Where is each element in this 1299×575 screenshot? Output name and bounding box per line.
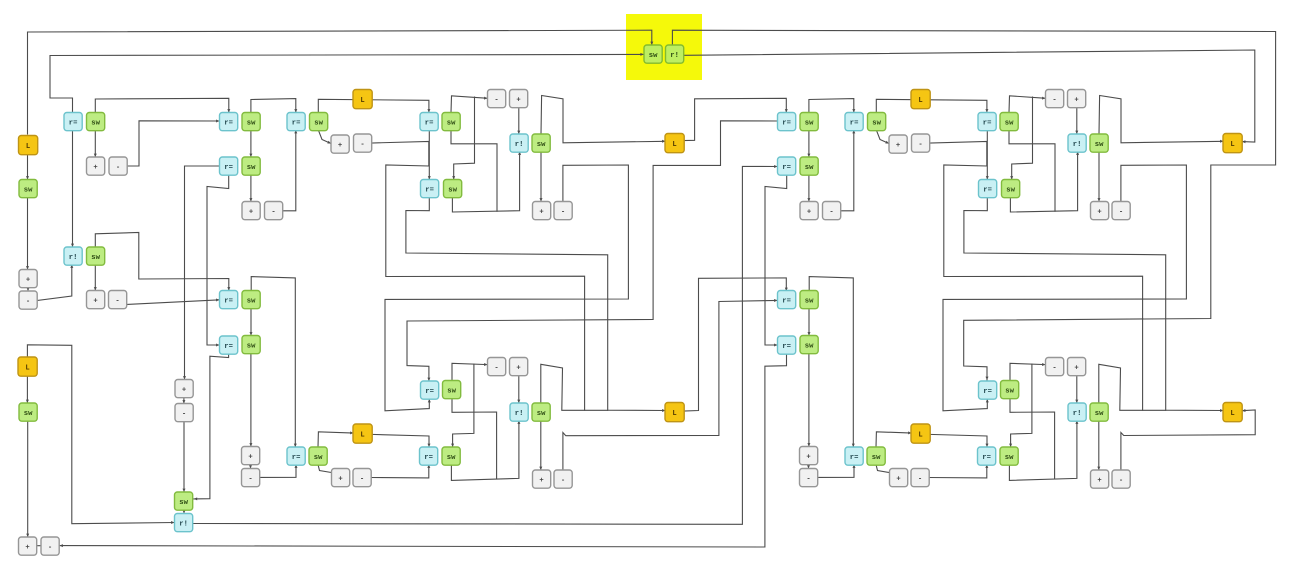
svg-text:L: L [25,364,29,372]
decrement m87 [41,537,59,555]
svg-text:L: L [1230,410,1234,418]
svg-text:r=: r= [292,454,301,462]
svg-text:r!: r! [179,520,188,528]
decrement m98 [554,470,572,488]
switch s39R [1002,180,1020,198]
wire w51 [260,465,297,478]
svg-text:+: + [338,142,342,150]
wire w12R [809,99,854,113]
register-test r58 [220,291,238,309]
svg-text:-: - [248,475,252,483]
wire w41 [540,421,542,471]
svg-text:-: - [360,141,364,149]
svg-text:sw: sw [537,141,546,149]
register-set r18 [666,45,684,63]
decrement m57 [109,291,127,309]
svg-text:r=: r= [782,297,791,305]
svg-text:sw: sw [179,499,188,507]
wire w52R [809,277,853,447]
switch s67R [1001,381,1019,399]
switch s10 [242,157,260,175]
register-set r70R [1068,403,1086,421]
switch s15R [1000,113,1018,131]
svg-text:+: + [806,453,810,461]
svg-text:+: + [539,477,543,485]
register-test r58R [778,291,796,309]
wire w8 [94,265,96,291]
wire w40 [563,300,778,470]
wire w64 [194,166,778,524]
decrement m41R [1112,202,1130,220]
wire w22R [929,142,987,167]
svg-text:r=: r= [782,164,791,172]
switch s33 [87,247,105,265]
switch s22R [1090,134,1108,152]
wire w53 [250,354,252,447]
increment p34R [800,202,818,220]
wire w17 [185,166,220,380]
increment p34 [242,202,260,220]
svg-text:r=: r= [292,119,301,127]
wire w5 [37,265,72,301]
decrement m19R [1046,90,1064,108]
wire w29 [540,152,542,202]
svg-text:sw: sw [447,387,456,395]
svg-text:r=: r= [850,454,859,462]
wire w37 [541,364,608,410]
switch s5 [242,113,260,131]
register-test r9R [778,157,796,175]
switch s13R [868,113,886,131]
lamp L31 [1223,134,1242,153]
svg-text:+: + [248,453,252,461]
wire w63 [183,510,185,514]
switch s5R [800,113,818,131]
svg-text:+: + [896,475,900,483]
switch s84 [175,492,193,510]
wire w55R [808,309,810,336]
wire w32 [407,121,778,381]
svg-text:+: + [516,96,520,104]
svg-text:+: + [93,164,97,172]
switch s91 [309,447,327,465]
register-test r90 [287,447,305,465]
svg-text:+: + [807,208,811,216]
svg-text:L: L [26,143,30,151]
wire w13R [876,99,987,112]
wire w14b [454,97,475,180]
svg-text:+: + [539,208,543,216]
increment p97R [1091,470,1109,488]
svg-text:sw: sw [805,119,814,127]
wire w9 [127,121,220,166]
wire w47 [372,434,430,447]
register-test r14R [978,113,996,131]
decrement m37 [354,134,372,152]
svg-text:sw: sw [805,297,814,305]
register-set r21 [510,134,528,152]
svg-text:sw: sw [447,119,456,127]
wire w26R [1010,152,1077,213]
register-test r14 [420,113,438,131]
svg-text:r!: r! [515,141,524,149]
wire w57 [194,354,229,499]
svg-text:L: L [360,431,364,439]
wire w22bR [944,165,1143,410]
wire w30 [385,165,628,411]
increment p36R [889,135,907,153]
switch s96 [442,447,460,465]
decrement m55 [19,291,37,309]
wire w20 [283,130,296,211]
wire w25 [451,130,497,211]
switch s71 [532,403,550,421]
wire w42R [1076,376,1078,404]
wire w31 [683,98,786,140]
svg-text:sw: sw [1005,454,1014,462]
svg-text:r=: r= [69,119,78,127]
svg-text:sw: sw [1005,119,1014,127]
wire w6 [95,233,229,291]
svg-text:sw: sw [1006,186,1015,194]
decrement m65 [175,404,193,422]
lamp L92 [353,424,372,443]
wire w45 [451,421,519,481]
wire w29R [1098,152,1100,202]
wire w22b [386,165,585,410]
wire w39 [684,278,787,411]
svg-text:sw: sw [91,119,100,127]
svg-text:r=: r= [850,119,859,127]
wire w3 [27,197,29,270]
svg-text:sw: sw [448,186,457,194]
svg-text:r=: r= [425,119,434,127]
wire w26 [452,152,519,213]
svg-text:+: + [25,544,29,552]
wire w51R [818,465,855,478]
increment p7 [87,157,105,175]
wire w61 [183,398,185,404]
wire w14bR [1012,97,1033,180]
lamp L11R [911,90,930,109]
register-test r4R [778,113,796,131]
decrement m94R [911,469,929,487]
wire w44 [452,399,497,479]
wire w62 [183,421,185,492]
wire w30R [943,165,1186,411]
increment p86 [19,537,37,555]
svg-text:sw: sw [91,254,100,262]
register-set r70 [510,403,528,421]
svg-text:sw: sw [537,410,546,418]
svg-text:r=: r= [224,164,233,172]
wire w41R [1098,421,1100,471]
svg-text:+: + [249,208,253,216]
wire w49 [371,465,429,478]
wire w53R [808,354,810,447]
wire w21 [318,130,331,144]
wire w21R [876,130,889,144]
switch s96R [1000,447,1018,465]
wire w60 [27,421,29,538]
wire w52 [251,277,295,447]
wire w47R [930,434,988,447]
svg-text:r=: r= [224,297,233,305]
svg-text:+: + [896,142,900,150]
svg-text:+: + [182,386,186,394]
wire w23R [986,130,988,180]
switch s39 [444,180,462,198]
wire w4 [27,287,29,291]
wire w45R [1009,421,1077,481]
svg-text:-: - [561,477,565,485]
wire w28 [541,96,666,143]
wire w20R [841,130,854,211]
svg-text:+: + [26,276,30,284]
wire wB [50,54,644,112]
svg-text:sw: sw [247,119,256,127]
highlight: yellow selection box around center sw/r! pair [626,14,702,80]
register-test r90R [845,447,863,465]
register-test r66R [979,381,997,399]
svg-text:r=: r= [782,343,791,351]
wire w27 [518,108,520,135]
svg-text:+: + [1074,364,1078,372]
increment p40 [533,202,551,220]
increment p69R [1068,358,1086,376]
register-test r12 [287,113,305,131]
wire w43bR [1011,364,1032,447]
wire w16R [808,130,810,157]
svg-text:-: - [561,208,565,216]
svg-text:L: L [918,431,922,439]
wire w25R [1009,130,1055,211]
lamp L92R [911,424,930,443]
svg-text:r!: r! [69,254,78,262]
wire w16 [250,130,252,157]
decrement m35 [265,202,283,220]
svg-text:-: - [494,364,498,372]
decrement m37R [912,134,930,152]
wire w27R [1076,108,1078,135]
svg-text:-: - [918,141,922,149]
wire w43b [453,364,474,447]
decrement m68 [488,358,506,376]
increment p56 [87,291,105,309]
switch s22 [532,134,550,152]
svg-text:r!: r! [670,52,679,60]
lamp L83 [1223,403,1242,422]
switch s3 [87,113,105,131]
wire w43 [452,363,488,380]
svg-text:r=: r= [983,186,992,194]
switch s63 [19,403,37,421]
wire w37R [1099,364,1166,410]
wire w54R [808,464,810,469]
wire w22 [371,142,429,167]
svg-text:r=: r= [425,388,434,396]
switch s67 [443,381,461,399]
svg-text:-: - [360,475,364,483]
wire w14R [1009,96,1046,113]
decrement m94 [353,469,371,487]
svg-text:-: - [1119,477,1123,485]
wire w65 [60,354,787,548]
svg-text:sw: sw [247,342,256,350]
wire w42 [518,376,520,404]
wire w58 [27,345,174,524]
register-test r9 [220,157,238,175]
wire w14 [451,96,488,113]
wire wB2 [684,50,1255,142]
switch s10R [800,157,818,175]
register-test r95R [978,447,996,465]
decrement m19 [488,90,506,108]
svg-text:L: L [360,97,364,105]
wire w2 [27,154,29,180]
switch s59 [242,291,260,309]
wire w11 [95,98,229,112]
svg-text:L: L [672,141,676,149]
wire w10 [126,300,220,305]
svg-text:sw: sw [24,186,33,194]
svg-text:r=: r= [982,454,991,462]
svg-text:sw: sw [872,454,881,462]
svg-text:L: L [672,410,676,418]
lamp L23 [665,134,684,153]
svg-text:-: - [829,208,833,216]
svg-text:sw: sw [247,164,256,172]
svg-text:r=: r= [424,454,433,462]
svg-text:sw: sw [314,119,323,127]
wire w46R [876,432,912,447]
wire w13 [318,99,429,112]
wire w49R [929,465,987,478]
increment p88 [242,447,260,465]
wire w66 [37,545,42,547]
increment p20 [510,90,528,108]
register-test r12R [845,113,863,131]
svg-text:r=: r= [425,186,434,194]
lamp L1 [19,136,38,155]
increment p40R [1091,202,1109,220]
wire w48R [876,465,891,473]
svg-text:sw: sw [314,454,323,462]
register-test r38 [421,180,439,198]
decrement m68R [1046,358,1064,376]
svg-text:-: - [271,208,275,216]
svg-text:sw: sw [872,119,881,127]
svg-text:-: - [1119,208,1123,216]
svg-text:r=: r= [224,343,233,351]
wire w28R [1099,96,1224,143]
decrement m89R [800,469,818,487]
wire w23 [428,130,430,180]
svg-text:L: L [1230,141,1234,149]
wire w75 [1121,410,1255,470]
wire w46 [318,432,354,447]
svg-text:r=: r= [782,119,791,127]
svg-text:r=: r= [224,119,233,127]
increment p88R [800,447,818,465]
register-set r32 [64,247,82,265]
register-test r4 [220,113,238,131]
increment p36 [331,135,349,153]
increment p64 [175,380,193,398]
decrement m89 [242,469,260,487]
increment p97 [533,470,551,488]
increment p69 [510,358,528,376]
register-test r60 [220,336,238,354]
svg-text:r!: r! [1073,141,1082,149]
switch s15 [442,113,460,131]
wire w18 [207,175,229,345]
wire w36 [406,197,666,411]
svg-text:L: L [918,97,922,105]
svg-text:-: - [1052,364,1056,372]
decrement m35R [823,202,841,220]
switch s17 [644,45,662,63]
wire w59 [26,376,28,404]
wire w19 [250,175,252,202]
svg-text:sw: sw [1095,141,1104,149]
wire w48 [318,465,333,473]
wire w1L [72,130,74,247]
svg-text:sw: sw [649,52,658,60]
wire wA2 [672,30,1275,380]
svg-text:-: - [115,297,119,305]
increment p93 [332,469,350,487]
svg-text:+: + [338,475,342,483]
svg-text:r=: r= [983,119,992,127]
wire w12 [251,99,296,113]
svg-text:-: - [26,298,30,306]
svg-text:-: - [806,475,810,483]
svg-text:sw: sw [247,297,256,305]
svg-text:sw: sw [447,454,456,462]
register-test r95 [420,447,438,465]
svg-text:+: + [1097,208,1101,216]
svg-text:r!: r! [515,410,524,418]
wire w44R [1010,399,1055,479]
wire w36R [964,197,1224,411]
svg-text:-: - [182,410,186,418]
decrement m41 [554,202,572,220]
svg-text:sw: sw [1095,410,1104,418]
switch s91R [867,447,885,465]
svg-text:sw: sw [24,410,33,418]
lamp L11 [353,90,372,109]
svg-text:+: + [1097,477,1101,485]
increment p93R [890,469,908,487]
register-test r66 [421,381,439,399]
wire w7 [94,130,96,157]
lamp L62 [18,357,37,376]
svg-text:sw: sw [1005,387,1014,395]
svg-text:+: + [1074,96,1078,104]
svg-text:-: - [116,164,120,172]
increment p20R [1068,90,1086,108]
decrement m8 [109,157,127,175]
svg-text:-: - [1052,96,1056,104]
switch s71R [1090,403,1108,421]
switch s59R [800,291,818,309]
svg-text:-: - [494,96,498,104]
register-test r38R [979,180,997,198]
register-test r2 [64,113,82,131]
wire w43R [1010,363,1046,380]
switch s61 [242,336,260,354]
